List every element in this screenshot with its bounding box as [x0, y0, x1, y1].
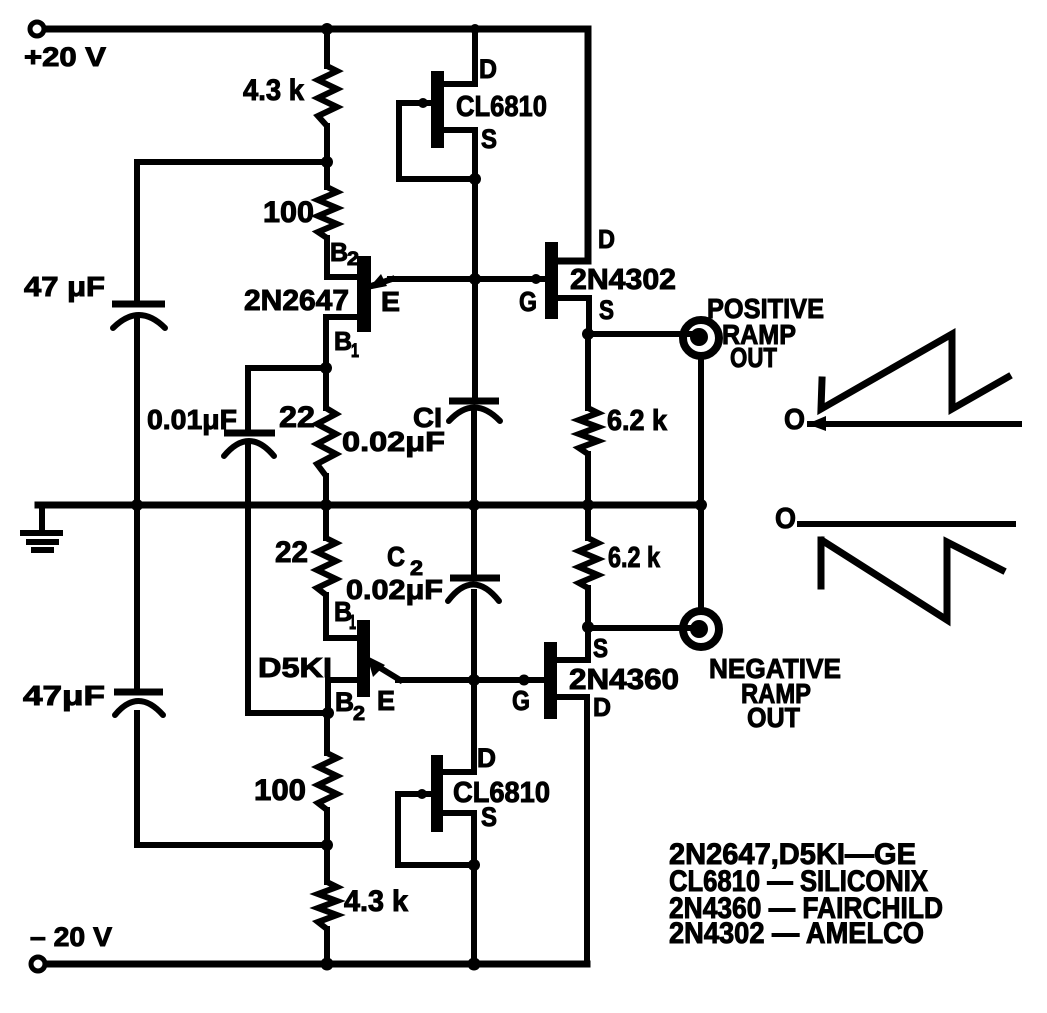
svg-text:S: S: [481, 124, 497, 154]
svg-text:B: B: [335, 687, 354, 717]
svg-text:6.2 k: 6.2 k: [608, 542, 661, 574]
svg-text:+20 V: +20 V: [24, 42, 106, 72]
svg-text:S: S: [481, 802, 497, 832]
svg-text:47μF: 47μF: [23, 680, 105, 711]
svg-text:G: G: [519, 286, 537, 317]
svg-text:4.3 k: 4.3 k: [243, 74, 304, 107]
svg-text:CL6810: CL6810: [456, 91, 547, 123]
svg-text:D: D: [477, 743, 496, 773]
svg-text:OUT: OUT: [747, 702, 800, 733]
svg-text:0.01μF: 0.01μF: [147, 404, 237, 435]
svg-text:2: 2: [353, 703, 365, 725]
svg-text:100: 100: [254, 774, 306, 807]
svg-text:2N2647: 2N2647: [244, 285, 349, 317]
svg-text:2N4302 — AMELCO: 2N4302 — AMELCO: [669, 917, 924, 950]
svg-text:O: O: [775, 503, 796, 535]
svg-text:– 20 V: – 20 V: [30, 922, 112, 952]
svg-text:O: O: [784, 404, 805, 436]
svg-text:22: 22: [279, 401, 315, 434]
svg-text:2N4360: 2N4360: [569, 664, 679, 696]
svg-text:47 μF: 47 μF: [24, 271, 105, 302]
svg-text:D: D: [598, 224, 615, 254]
svg-text:2N4302: 2N4302: [570, 264, 676, 296]
svg-text:D: D: [593, 692, 611, 722]
svg-text:OUT: OUT: [730, 342, 777, 373]
svg-text:D: D: [479, 54, 497, 84]
svg-text:100: 100: [263, 196, 314, 229]
svg-text:B: B: [330, 237, 348, 267]
svg-text:22: 22: [275, 536, 308, 569]
svg-text:S: S: [593, 633, 608, 663]
svg-text:G: G: [512, 685, 530, 716]
svg-text:4.3 k: 4.3 k: [344, 885, 408, 918]
svg-text:1: 1: [351, 341, 359, 362]
svg-text:B: B: [334, 326, 352, 356]
svg-text:E: E: [377, 685, 395, 716]
svg-text:0.02μF: 0.02μF: [342, 426, 445, 457]
svg-text:C: C: [387, 541, 405, 572]
svg-text:1: 1: [349, 612, 356, 634]
svg-text:6.2 k: 6.2 k: [607, 405, 668, 437]
svg-text:E: E: [381, 286, 400, 317]
svg-text:S: S: [599, 295, 614, 325]
svg-text:CL6810: CL6810: [453, 777, 550, 809]
svg-text:0.02μF: 0.02μF: [346, 574, 443, 605]
svg-text:D5KI: D5KI: [258, 652, 332, 683]
svg-text:2: 2: [347, 249, 359, 270]
